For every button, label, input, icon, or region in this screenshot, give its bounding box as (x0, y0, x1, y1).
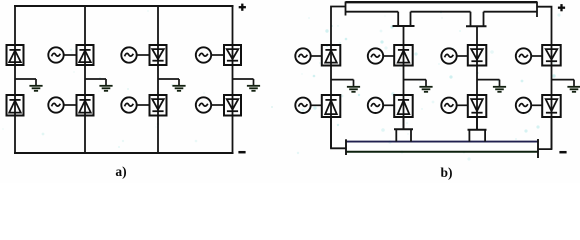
bus: fig-b bottom rail upper (346, 141, 538, 143)
wire: G5b to D5b (311, 104, 322, 106)
wire: fig-b string 3 bottom stem (476, 117, 478, 130)
wire: G7a to D7a (457, 55, 468, 57)
wire: fig-b string 2 bottom stem (403, 117, 405, 129)
wire: G3a to D3a (137, 54, 150, 56)
wire: fig-a string 3 vertical (157, 6, 159, 153)
diode box D6b (fig-b row 2, up) (394, 95, 413, 117)
bus: fig-b top rail inner segment 2 (411, 11, 471, 13)
ac source G2b (row 2) (48, 97, 63, 112)
wire: fig-b string 4 drop (538, 117, 552, 149)
wire: fig-b string 3 vertical (476, 45, 478, 130)
terminal - (fig a) (238, 151, 245, 154)
ground (fig-a string 4) (233, 79, 261, 91)
svg-text:a): a) (115, 164, 126, 179)
wire: fig-b string 1 vertical (330, 45, 332, 148)
diode box D3a (row 1, down) (150, 45, 167, 65)
wire: fig-b string 1 drop (331, 117, 346, 148)
wire: G2a to D2a (64, 54, 77, 56)
wire: fig-b string 1 riser (331, 7, 346, 46)
ac source G4a (row 1) (196, 47, 211, 62)
ground (fig-b string 4) (552, 80, 580, 92)
wire: fig-b string 3 bottom bridge right leg (484, 130, 486, 142)
ac source G2a (row 1) (48, 47, 63, 62)
svg-text:b): b) (440, 165, 452, 180)
wire: fig-a string 1 vertical (14, 6, 16, 153)
ac source G5b (fig-b row 2) (295, 98, 310, 113)
wire: fig-b string 2 vertical (403, 45, 405, 129)
ac source G8b (fig-b row 2) (516, 98, 531, 113)
ac source G4b (row 2) (196, 97, 211, 112)
wire: fig-b string 4 riser (537, 7, 552, 45)
wire: fig-b string 2 top bridge bar (393, 25, 415, 27)
wire: G5a to D5a (311, 55, 322, 57)
figure a: top bus (+) (14, 5, 234, 7)
diode box D4b (row 2, down) (224, 95, 241, 116)
wire: G8a to D8a (531, 55, 542, 57)
ac source G6b (fig-b row 2) (368, 98, 383, 113)
wire: G6b to D6b (383, 104, 394, 106)
ac source G8a (fig-b row 1) (516, 48, 531, 63)
wire: fig-b string 3 bottom bridge left leg (468, 130, 470, 142)
diode box D3b (row 2, down) (150, 95, 167, 116)
wire: fig-b string 3 bottom bridge bar (468, 129, 487, 131)
wire: G4a to D4a (211, 54, 224, 56)
wire: fig-b string 2 top bridge right leg (410, 12, 412, 26)
wire: fig-b string 2 bottom bridge right leg (410, 129, 412, 141)
ground (fig-a string 2) (85, 79, 113, 91)
wire: fig-b string 4 vertical (551, 45, 553, 149)
ac source G7a (fig-b row 1) (441, 48, 456, 63)
ground (fig-b string 2) (404, 80, 433, 92)
wire: G7b to D7b (457, 104, 468, 106)
diode box D8a (fig-b row 1, down) (542, 45, 561, 66)
diode box D6a (fig-b row 1, up) (394, 45, 413, 66)
wire: G4b to D4b (211, 104, 224, 106)
wire: G3b to D3b (137, 104, 150, 106)
wire: fig-b string 2 top bridge left leg (397, 12, 399, 26)
wire: fig-b string 3 top bridge right leg (483, 12, 485, 27)
ac source G6a (fig-b row 1) (368, 48, 383, 63)
diode box D4a (row 1, down) (224, 45, 241, 65)
wire: fig-b string 3 top bridge bar (466, 25, 487, 27)
diode box D8b (fig-b row 2, down) (542, 95, 561, 117)
wire: fig-b string 2 bottom bridge left leg (395, 129, 397, 141)
wire: fig-a string 4 vertical (232, 6, 234, 153)
ground (fig-b string 3) (477, 80, 506, 92)
bus: fig-b top rail inner segment 3 (484, 11, 538, 13)
figure a: bottom bus (-) (14, 152, 234, 154)
diode box D2b (row 2, up) (77, 95, 94, 116)
wire: fig-b string 2 top stem (403, 26, 405, 45)
terminal + (fig b) (558, 4, 565, 11)
wire: G8b to D8b (531, 104, 542, 106)
ground (fig-a string 1) (15, 79, 43, 91)
ground (fig-a string 3) (158, 79, 186, 91)
bus: fig-b bottom rail lower (-) (346, 151, 538, 153)
wire: fig-b bottom-left bus cap (345, 139, 347, 155)
ac source G5a (fig-b row 1) (295, 48, 310, 63)
ground (fig-b string 1) (331, 80, 360, 92)
ac source G3b (row 2) (121, 97, 136, 112)
terminal + (fig a) (239, 4, 246, 11)
wire: G6a to D6a (383, 55, 394, 57)
diode box D7a (fig-b row 1, down) (468, 45, 487, 66)
terminal - (fig b) (559, 151, 566, 154)
diode box D7b (fig-b row 2, down) (468, 95, 487, 117)
bus: fig-b top rail outer (+) (346, 1, 538, 3)
wire: G2b to D2b (64, 104, 77, 106)
diode box D1a (row 1, up) (7, 45, 24, 65)
diode box D5a (fig-b row 1, up) (322, 45, 341, 66)
diode box D1b (row 2, up) (7, 95, 24, 116)
ac source G7b (fig-b row 2) (441, 98, 456, 113)
ac source G3a (row 1) (121, 47, 136, 62)
wire: fig-b string 3 top stem (476, 26, 478, 45)
wire: fig-b string 3 top bridge left leg (470, 12, 472, 27)
wire: fig-b string 2 bottom bridge bar (394, 128, 413, 130)
bus: fig-b top rail inner segment 1 (346, 11, 399, 13)
diode box D2a (row 1, up) (77, 45, 94, 65)
wire: fig-a string 2 vertical (84, 6, 86, 153)
diode box D5b (fig-b row 2, up) (322, 95, 341, 117)
wire: fig-b top-left bus cap (345, 2, 347, 16)
wire: fig-b top-right bus cap (536, 2, 538, 18)
wire: fig-b bottom-right bus cap (537, 139, 539, 158)
